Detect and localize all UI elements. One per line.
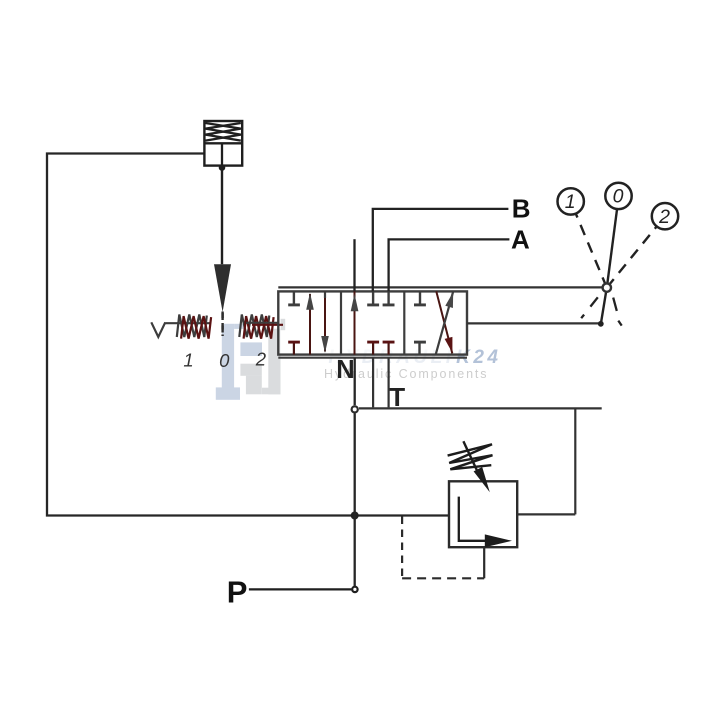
svg-text:B: B	[512, 193, 531, 223]
junction dot P line	[351, 512, 359, 520]
lever lower solid arm	[601, 288, 607, 324]
watermark logo blue mid square	[240, 342, 262, 356]
svg-text:0: 0	[219, 350, 230, 371]
wire T horizontal	[359, 407, 602, 409]
position circle 2	[652, 203, 678, 229]
pos1 top blocked port	[293, 291, 295, 304]
pilot relief valve spring	[206, 123, 241, 141]
valve body outline	[278, 291, 467, 354]
svg-text:1: 1	[183, 349, 193, 370]
pos1 down flow line	[324, 291, 326, 351]
spring right gray	[239, 315, 269, 338]
svg-text:A: A	[511, 224, 530, 254]
pos2 top blocked port	[419, 291, 421, 304]
pos0 up arrowhead	[351, 294, 359, 311]
pos1 down arrowhead	[321, 336, 329, 353]
spring left gray	[177, 315, 207, 338]
pos1 up arrowhead	[306, 293, 314, 310]
pilot relief valve body (top left)	[204, 121, 242, 166]
spring link to valve gray	[246, 322, 279, 324]
pilot relief valve stem	[221, 143, 223, 166]
wire relief valve to P junction (left tall line)	[47, 154, 353, 516]
watermark logo gray mid block	[240, 364, 261, 376]
pilot dashed horizontal	[402, 577, 484, 579]
compensator outlet wire	[517, 513, 575, 515]
pos0 bottom blocked ports	[373, 343, 389, 355]
wire port A	[389, 239, 510, 291]
watermark logo blue top bar	[234, 324, 245, 329]
valve section divider left	[340, 291, 342, 354]
pilot control line down	[221, 168, 223, 265]
pos1 up flow line	[309, 294, 311, 355]
compensator adjust arrowhead	[474, 467, 490, 492]
svg-text:2: 2	[255, 348, 267, 369]
pilot control dashed tail	[221, 313, 223, 336]
svg-text:1: 1	[565, 191, 576, 213]
wire valve to T line left	[372, 358, 374, 408]
pos2 gray arrowhead	[445, 292, 453, 308]
lever dashed arm to 2	[607, 226, 657, 287]
position circle 0	[605, 183, 631, 209]
P ring	[352, 587, 357, 592]
pos2 cross line up	[436, 291, 454, 354]
watermark logo block blue column	[222, 324, 234, 388]
pilot dashed vertical	[401, 517, 403, 578]
valve section divider right	[403, 291, 405, 354]
pilot control arrow	[214, 264, 231, 312]
lever lower arm end dot	[598, 321, 604, 327]
wire P junction to compensator inlet	[353, 514, 449, 516]
watermark logo blue foot	[216, 387, 240, 399]
svg-text:0: 0	[613, 186, 624, 208]
spring left red copy	[181, 316, 211, 339]
wire N stub above valve	[353, 239, 355, 291]
pos0 center flow line	[354, 291, 356, 354]
pilot relief valve bottom dot	[219, 164, 226, 171]
pos2 bottom blocked port	[418, 343, 420, 355]
compensator valve body	[449, 481, 517, 547]
spring right red copy	[244, 316, 274, 339]
compensator adjust arrow shaft	[463, 441, 477, 470]
valve top rail to pivot	[278, 286, 602, 288]
watermark logo gray bottom bar	[262, 388, 281, 395]
position circle 1	[558, 188, 584, 214]
pos2 red arrowhead	[445, 337, 453, 353]
center dashed position line	[221, 312, 223, 337]
spring link to valve red	[252, 324, 283, 326]
svg-text:2: 2	[658, 206, 670, 228]
wire T down to compensator outlet	[574, 408, 576, 514]
compensator flow arrowhead	[485, 534, 512, 547]
lever lower dashed right	[613, 298, 622, 326]
lever dashed arm to 1	[576, 213, 607, 287]
compensator flow path	[459, 497, 488, 541]
watermark logo gray right column	[268, 329, 280, 395]
svg-text:N: N	[336, 356, 354, 384]
pilot solid riser	[483, 547, 485, 578]
detent link line	[165, 322, 210, 324]
wire N line through node	[354, 358, 356, 587]
lever solid arm to 0	[607, 210, 617, 288]
lever lower dashed left	[581, 297, 598, 318]
pos1 bottom blocked port	[293, 343, 295, 355]
valve bottom sub line	[278, 357, 467, 359]
node ring	[352, 406, 358, 412]
watermark logo gray lower block	[246, 376, 262, 395]
wire valve to T line right	[388, 358, 390, 408]
pos2 cross line down	[436, 291, 452, 353]
pos0 top blocked ports	[373, 291, 389, 304]
svg-text:P: P	[227, 575, 248, 610]
valve interior white wash	[279, 292, 466, 354]
lever pivot ring	[603, 283, 611, 291]
watermark logo small gray tick	[281, 319, 286, 330]
compensator spring	[448, 444, 493, 469]
valve right mid line to lever	[467, 322, 599, 324]
detent V symbol	[151, 322, 165, 337]
wire port B	[373, 209, 509, 292]
wire P	[249, 588, 352, 590]
